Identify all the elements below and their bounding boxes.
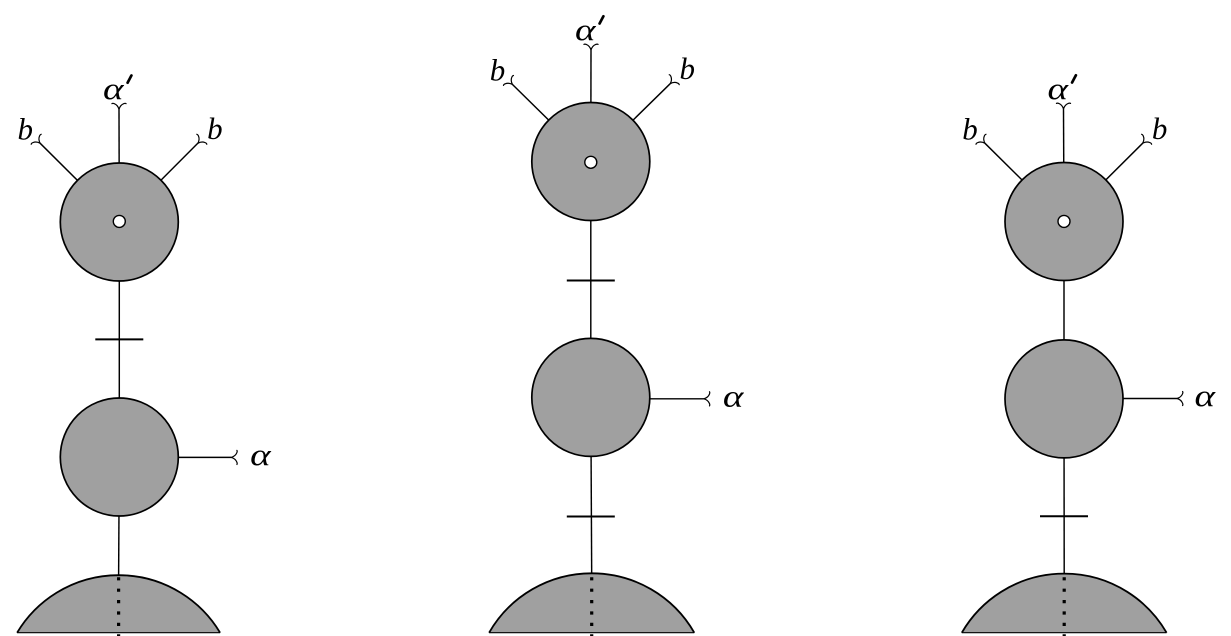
wire: propagator line between upper and middle disc (figure 2) xyxy=(590,162,592,398)
node: fork end of left b leg (figure 2) xyxy=(503,75,517,89)
boundary dome fill (large disc cut by frame) (figure 2) xyxy=(489,573,694,632)
boundary dome arc outline (figure 2) xyxy=(489,573,694,632)
boundary dome arc outline (figure 1) xyxy=(17,575,220,633)
wire: external leg alpha (right side of middle disc) (figure 2) xyxy=(591,398,704,400)
svg-text:α: α xyxy=(1048,71,1069,106)
wire: propagator line between upper and middle disc (figure 1) xyxy=(118,222,120,457)
wire: external leg b (left) (figure 2) xyxy=(513,85,591,162)
label alpha (figure 2) xyxy=(723,378,744,413)
svg-text:α: α xyxy=(1195,378,1216,413)
label b (right) (figure 1) xyxy=(207,111,223,146)
svg-text:b: b xyxy=(680,51,696,86)
dotted axis line inside dome (figure 3) xyxy=(1063,577,1066,636)
node: fork end of alpha-prime leg (figure 3) xyxy=(1056,103,1070,109)
wire: propagator line between middle disc and boundary dome (figure 1) xyxy=(118,457,121,578)
wire: external leg alpha (right side of middle disc) (figure 3) xyxy=(1064,398,1177,400)
wire: external leg alpha (right side of middle disc) (figure 1) xyxy=(119,456,231,458)
dotted axis line inside dome (figure 2) xyxy=(590,577,593,636)
node: fork end of alpha leg (figure 2) xyxy=(704,392,710,406)
node: fork end of right b leg (figure 3) xyxy=(1138,134,1152,148)
boundary dome fill (large disc cut by frame) (figure 1) xyxy=(17,575,220,633)
node: fork end of alpha leg (figure 3) xyxy=(1177,391,1183,405)
wire: external leg b (right) (figure 3) xyxy=(1064,143,1143,221)
node: sewing tick on lower propagator (figure 3) xyxy=(1040,515,1088,517)
middle disc (figure 1) xyxy=(60,398,178,516)
svg-text:α: α xyxy=(575,12,596,47)
node: fork end of left b leg (figure 3) xyxy=(976,134,990,148)
upper disc (sphere with puncture) (figure 3) xyxy=(1005,163,1123,281)
label b (left) (figure 3) xyxy=(962,111,978,146)
label b (right) (figure 2) xyxy=(680,51,696,86)
svg-text:α: α xyxy=(723,378,744,413)
node: sewing tick on lower propagator (figure 2) xyxy=(567,516,615,518)
wire: external leg b (left) (figure 1) xyxy=(40,143,119,222)
middle disc (figure 3) xyxy=(1005,340,1123,458)
wire: propagator line between middle disc and boundary dome (figure 2) xyxy=(590,397,593,577)
boundary dome arc outline (figure 3) xyxy=(962,574,1167,633)
wire: external leg alpha-prime stem (figure 1) xyxy=(118,109,120,222)
wire: propagator line between middle disc and boundary dome (figure 3) xyxy=(1063,399,1065,578)
puncture hole on upper disc (figure 2) xyxy=(585,156,597,168)
wire: external leg alpha-prime stem (figure 2) xyxy=(590,50,592,161)
node: fork end of alpha-prime leg (figure 1) xyxy=(112,103,126,109)
svg-text:b: b xyxy=(962,111,978,146)
puncture hole on upper disc (figure 1) xyxy=(113,215,125,227)
middle disc (figure 2) xyxy=(532,338,650,456)
boundary dome fill (large disc cut by frame) (figure 3) xyxy=(962,574,1167,633)
puncture hole on upper disc (figure 3) xyxy=(1058,215,1070,227)
upper disc (sphere with puncture) (figure 1) xyxy=(60,163,178,281)
wire: external leg alpha-prime stem (figure 3) xyxy=(1063,109,1066,221)
label b (left) (figure 1) xyxy=(18,111,34,146)
svg-text:b: b xyxy=(490,53,506,88)
svg-text:α: α xyxy=(250,437,271,472)
dotted axis line inside dome (figure 1) xyxy=(117,577,120,636)
label alpha-prime (figure 2) xyxy=(575,12,603,47)
wire: external leg b (left) (figure 3) xyxy=(985,143,1064,221)
label alpha (figure 3) xyxy=(1195,378,1216,413)
svg-text:b: b xyxy=(207,111,223,146)
node: fork end of right b leg (figure 2) xyxy=(665,74,679,88)
label alpha-prime (figure 1) xyxy=(103,71,131,106)
wire: propagator line between upper and middle disc (figure 3) xyxy=(1063,222,1065,399)
boundary dome chord baseline (figure 1) xyxy=(17,632,220,634)
node: fork end of alpha-prime leg (figure 2) xyxy=(584,44,598,50)
svg-text:α: α xyxy=(103,71,124,106)
boundary dome chord baseline (figure 2) xyxy=(489,632,694,634)
wire: external leg b (right) (figure 1) xyxy=(119,143,198,222)
node: fork end of alpha leg (figure 1) xyxy=(231,450,237,464)
upper disc (sphere with puncture) (figure 2) xyxy=(532,103,650,221)
node: sewing tick on upper propagator (figure 2) xyxy=(567,280,615,282)
boundary dome chord baseline (figure 3) xyxy=(962,632,1167,634)
label alpha-prime (figure 3) xyxy=(1048,71,1076,106)
node: fork end of left b leg (figure 1) xyxy=(31,134,45,148)
label b (right) (figure 3) xyxy=(1152,111,1168,146)
node: sewing tick on upper propagator (figure 1) xyxy=(95,338,143,340)
node: fork end of right b leg (figure 1) xyxy=(193,134,207,148)
label b (left) (figure 2) xyxy=(490,53,506,88)
label alpha (figure 1) xyxy=(250,437,271,472)
svg-text:b: b xyxy=(1152,111,1168,146)
wire: external leg b (right) (figure 2) xyxy=(591,84,670,162)
svg-text:b: b xyxy=(18,111,34,146)
